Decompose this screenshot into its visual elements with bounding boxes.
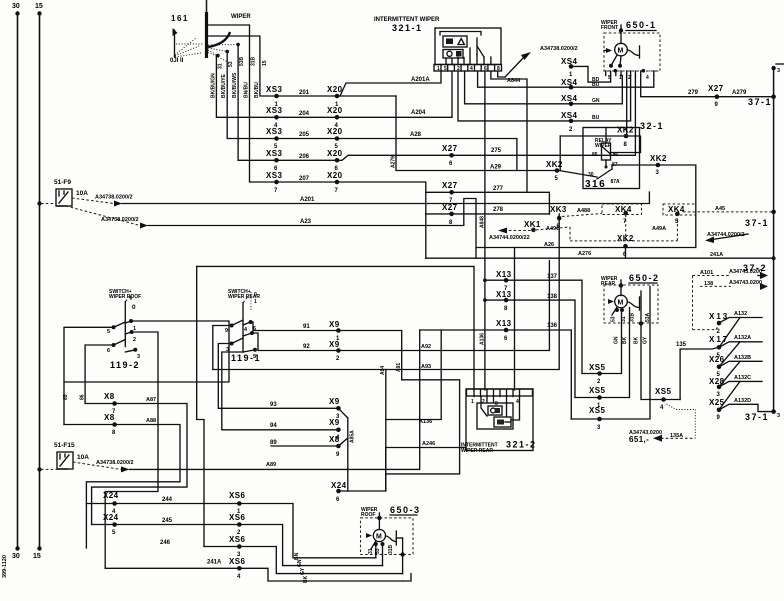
wire A34744 offpage arrow right: [705, 232, 748, 243]
svg-text:X25: X25: [709, 398, 725, 407]
connector XS5-4: [629, 387, 695, 444]
connector X26-5 zigzag: [709, 355, 762, 387]
svg-text:8: 8: [112, 430, 116, 436]
svg-text:A34744.0200/2: A34744.0200/2: [707, 232, 745, 238]
svg-text:0: 0: [254, 292, 257, 298]
svg-text:A34743.0200: A34743.0200: [729, 280, 762, 286]
svg-text:M: M: [618, 300, 624, 307]
svg-text:5: 5: [444, 66, 447, 72]
wire 93 119-1 to X9-3: [218, 344, 338, 409]
svg-text:X27: X27: [442, 144, 458, 153]
svg-text:6: 6: [336, 497, 340, 503]
svg-text:6: 6: [504, 336, 508, 342]
wire BN/BU 31B 161 to XS3-7: [207, 25, 277, 182]
svg-text:53B: 53B: [239, 56, 245, 66]
connector X17-5 zigzag: [709, 335, 762, 367]
svg-text:XS6: XS6: [229, 535, 245, 544]
svg-text:15: 15: [35, 3, 43, 10]
wire A844 321-1 to A34738.0200/2 offpage: [498, 46, 578, 84]
svg-text:A201: A201: [300, 197, 315, 203]
svg-text:10A: 10A: [77, 454, 89, 461]
svg-text:XK2: XK2: [617, 234, 634, 243]
svg-text:BK: BK: [634, 336, 640, 344]
wire A201A X20-1 to 321-1 pin: [337, 71, 441, 168]
svg-text:4: 4: [660, 405, 664, 411]
connector XK2-3: [612, 154, 696, 248]
svg-text:A488: A488: [577, 208, 590, 214]
wire 92 119-1 to X9-2 to A92: [252, 261, 549, 351]
wire 244 X24-4 to XS6-1: [86, 497, 375, 558]
svg-text:A94: A94: [380, 366, 386, 375]
wire 246 to XS6-3: [160, 540, 403, 574]
connector X9-4: [329, 418, 341, 441]
connector X8-8: [64, 413, 180, 548]
svg-text:241A: 241A: [710, 252, 723, 258]
svg-text:37-1: 37-1: [745, 412, 769, 422]
svg-text:8: 8: [504, 306, 508, 312]
connector XS4-4: [561, 76, 631, 134]
svg-text:X9: X9: [329, 418, 340, 427]
svg-text:A132C: A132C: [734, 375, 751, 381]
svg-text:A49A: A49A: [652, 226, 666, 232]
connector XS6-3: [229, 535, 245, 558]
svg-text:GN: GN: [297, 559, 303, 567]
connector X28-3 zigzag: [709, 375, 762, 410]
svg-text:53: 53: [228, 61, 234, 67]
wire color labels bottom: [294, 552, 309, 583]
svg-text:BK/BU/WS: BK/BU/WS: [232, 72, 238, 98]
svg-text:31B: 31B: [251, 56, 257, 66]
svg-text:WIPER: WIPER: [231, 14, 251, 20]
svg-text:BK: BK: [303, 575, 309, 583]
svg-text:245: 245: [162, 518, 173, 524]
sheet number 399-1120: [2, 555, 8, 578]
svg-text:37-1: 37-1: [745, 218, 769, 228]
wire 135 XS5-4 to X17: [676, 342, 719, 400]
svg-text:X27: X27: [708, 84, 724, 93]
svg-text:XK2: XK2: [546, 160, 563, 169]
svg-text:A34744.0200/22: A34744.0200/22: [489, 235, 530, 241]
svg-text:5: 5: [608, 75, 611, 81]
connector X13-7: [483, 270, 582, 374]
wire A89 fuse 51-F15 to X13-6 riser: [73, 330, 420, 472]
svg-text:A45: A45: [715, 206, 725, 212]
wire 321-1 pin to XS4-4 row: [458, 71, 571, 121]
svg-text:31B: 31B: [630, 312, 636, 322]
svg-text:A92: A92: [421, 344, 431, 350]
intermittent wiper unit 321-1: [374, 17, 502, 72]
svg-text:BK: BK: [622, 336, 628, 344]
svg-text:ROOF: ROOF: [361, 512, 375, 518]
svg-text:WIPER REAR: WIPER REAR: [461, 448, 493, 454]
svg-text:XS5: XS5: [589, 406, 605, 415]
connector XK4-5: [570, 204, 696, 241]
connector XS4-2: [561, 76, 654, 90]
svg-text:XK2: XK2: [617, 126, 634, 135]
svg-text:A132B: A132B: [734, 355, 751, 361]
wire A28 X20-5 to XK2-5: [337, 132, 517, 171]
wire A246 X24-6 to 321-2: [339, 441, 467, 491]
svg-text:6: 6: [449, 161, 453, 167]
wire A26 branch to 321-2 pin: [514, 248, 516, 391]
connector X13-8: [483, 290, 575, 398]
wire 241A to XS6-4: [105, 560, 411, 582]
svg-text:A87: A87: [146, 397, 156, 403]
wire A29 to XK2-5: [396, 96, 557, 171]
svg-text:GY: GY: [300, 567, 306, 575]
svg-text:A34738.0200/2: A34738.0200/2: [96, 460, 134, 466]
svg-text:4: 4: [244, 327, 248, 333]
svg-text:A201A: A201A: [411, 77, 430, 83]
connector XK2-5: [546, 160, 597, 182]
svg-text:1: 1: [437, 66, 440, 72]
svg-text:89: 89: [270, 440, 277, 446]
svg-text:2: 2: [336, 356, 340, 362]
svg-text:15: 15: [262, 60, 268, 66]
svg-text:31: 31: [218, 63, 224, 69]
connector XS5-2: [589, 363, 605, 385]
svg-text:51-F15: 51-F15: [54, 442, 75, 449]
svg-text:93: 93: [270, 402, 277, 408]
wire A93 119-1 to XK3: [213, 221, 559, 371]
connector XK3-5: [550, 205, 602, 230]
connector X24-4: [103, 491, 119, 515]
svg-text:XS3: XS3: [266, 106, 282, 115]
svg-text:321-1: 321-1: [392, 23, 423, 33]
svg-text:X24: X24: [103, 513, 119, 522]
relay assembly 32-1: [640, 121, 664, 131]
svg-text:XK1: XK1: [524, 220, 541, 229]
svg-text:A34738.0200/2: A34738.0200/2: [95, 195, 133, 201]
svg-text:BN/BU: BN/BU: [244, 82, 250, 98]
svg-text:87A: 87A: [611, 179, 621, 185]
svg-text:9: 9: [225, 328, 228, 334]
svg-text:5: 5: [112, 530, 116, 536]
wire 205: [277, 132, 338, 139]
svg-text:2: 2: [628, 75, 631, 81]
wire 206-275 X20-6 to X27-6 to 650-1: [337, 76, 635, 161]
svg-text:A91: A91: [396, 363, 402, 372]
wire A204 X20-4 to 321-1 pin: [337, 71, 452, 117]
wire 91 119-1 to X9-1 to A91: [251, 322, 403, 380]
svg-text:X26: X26: [709, 355, 725, 364]
svg-text:XK2: XK2: [650, 154, 667, 163]
svg-text:205: 205: [299, 132, 310, 138]
svg-text:A844: A844: [507, 78, 521, 84]
fuse 51-F15: [37, 442, 89, 472]
svg-text:A204: A204: [411, 110, 426, 116]
svg-text:X27: X27: [442, 181, 458, 190]
svg-text:GN: GN: [614, 336, 620, 344]
svg-text:119-2: 119-2: [110, 360, 140, 370]
svg-text:X13: X13: [496, 290, 512, 299]
svg-text:241A: 241A: [207, 560, 222, 566]
wire 119-2 box loop: [64, 321, 229, 382]
wire 204: [277, 111, 338, 117]
connector X20 column: [327, 85, 343, 194]
connector XK2-8: [560, 126, 640, 171]
connector X13-6: [420, 319, 572, 419]
svg-text:138: 138: [704, 281, 713, 287]
connector X27-6: [442, 144, 458, 167]
svg-text:XS6: XS6: [229, 491, 245, 500]
svg-text:REAR: REAR: [601, 281, 616, 287]
connector XS5-1: [589, 386, 605, 409]
svg-text:399-1120: 399-1120: [2, 555, 8, 578]
wiper rear motor 650-2: [601, 273, 660, 326]
wire A136 left jog: [386, 330, 441, 425]
connector XS4-1: [561, 57, 611, 88]
connector XS3 column: [266, 85, 282, 194]
svg-text:650-3: 650-3: [390, 505, 421, 515]
label 37-1 top: [748, 97, 772, 107]
wire 278 X27-8 to XK3-5: [426, 207, 550, 214]
wire 119-2 box to X8-8: [63, 382, 65, 425]
svg-text:135: 135: [676, 342, 687, 348]
svg-text:X9: X9: [329, 320, 340, 329]
svg-text:A85A: A85A: [350, 430, 356, 443]
fuse 51-F9: [37, 179, 88, 206]
svg-text:3: 3: [656, 170, 660, 176]
wire 279 650-1 to X27-9 to rail A279: [641, 76, 776, 99]
svg-text:X8: X8: [329, 435, 340, 444]
connector X9-3: [329, 397, 356, 491]
wire GY 650-2 to XS5-3: [571, 287, 650, 420]
svg-text:246: 246: [160, 540, 171, 546]
svg-text:X13: X13: [496, 270, 512, 279]
svg-text:1: 1: [471, 399, 474, 405]
wire A201 fuse 51-F9 output: [72, 192, 649, 207]
wire A94 riser: [380, 366, 386, 491]
svg-text:A34738.0200/2: A34738.0200/2: [540, 46, 578, 52]
connector XS6-4: [229, 557, 245, 580]
svg-text:5: 5: [107, 329, 110, 335]
wire 321-1 pin to XS4-3 row: [465, 71, 571, 104]
svg-text:A34738.0200/2: A34738.0200/2: [101, 217, 139, 223]
connector X13-2 zigzag: [709, 311, 762, 347]
svg-text:37-1: 37-1: [748, 97, 772, 107]
connector X25-9 zigzag: [709, 398, 780, 422]
svg-text:XS3: XS3: [266, 171, 282, 180]
svg-text:279: 279: [688, 90, 699, 96]
svg-text:32-1: 32-1: [640, 121, 664, 131]
svg-text:204: 204: [299, 111, 310, 117]
svg-text:A136: A136: [479, 333, 485, 345]
svg-text:207: 207: [299, 176, 310, 182]
power rail 30: [12, 3, 20, 560]
wire 650-1 pin to XK2-8: [626, 76, 628, 137]
wire GN 650-2 to XS5-2: [582, 310, 622, 374]
svg-text:86: 86: [80, 394, 86, 400]
svg-text:BK/BU/YE: BK/BU/YE: [221, 73, 227, 98]
svg-text:XK3: XK3: [550, 205, 567, 214]
svg-text:31B: 31B: [388, 544, 394, 554]
svg-text:FRONT: FRONT: [601, 25, 618, 31]
svg-text:92: 92: [303, 344, 310, 350]
svg-text:A88: A88: [146, 418, 156, 424]
wire A276 / 241A to rail: [426, 251, 776, 273]
svg-text:206: 206: [299, 154, 310, 160]
svg-text:4: 4: [516, 399, 519, 405]
svg-text:A848: A848: [479, 216, 485, 228]
svg-text:BN: BN: [294, 552, 300, 560]
svg-text:2: 2: [482, 399, 485, 405]
right rail 37: [771, 64, 784, 412]
svg-text:30: 30: [12, 553, 20, 560]
svg-text:M: M: [376, 534, 382, 541]
svg-text:4: 4: [470, 66, 473, 72]
svg-text:244: 244: [162, 497, 173, 503]
svg-text:15: 15: [33, 553, 41, 560]
svg-text:53: 53: [375, 548, 381, 554]
svg-text:X20: X20: [327, 149, 343, 158]
svg-text:XS6: XS6: [229, 513, 245, 522]
svg-text:137: 137: [547, 274, 558, 280]
svg-text:3: 3: [777, 413, 780, 419]
relay wiper 316: [583, 128, 640, 191]
svg-text:XS3: XS3: [266, 149, 282, 158]
svg-text:XS4: XS4: [561, 57, 577, 66]
wire 321-1 pin to XS4-2 row: [478, 71, 571, 87]
wire A101 offpage dashed: [693, 269, 769, 279]
connector X27-8: [442, 203, 458, 226]
svg-text:1: 1: [254, 299, 257, 305]
wiper roof motor 650-3: [361, 505, 421, 566]
connector X24-6: [331, 481, 347, 503]
switch wiper rear 119-1: [225, 289, 261, 363]
svg-text:XS5: XS5: [655, 387, 671, 396]
svg-text:9: 9: [717, 415, 721, 421]
svg-text:4: 4: [646, 75, 649, 81]
connector X24-5: [103, 513, 119, 536]
svg-text:X20: X20: [327, 106, 343, 115]
svg-text:X8: X8: [104, 413, 115, 422]
wire 119-2 pin2 to XS6-4: [105, 332, 158, 568]
svg-text:2: 2: [133, 337, 136, 343]
svg-text:135A: 135A: [670, 433, 683, 439]
svg-text:XS4: XS4: [561, 111, 577, 120]
svg-text:BK/BU/GN: BK/BU/GN: [211, 73, 217, 98]
svg-text:53: 53: [611, 316, 617, 322]
svg-text:94: 94: [270, 423, 277, 429]
svg-text:277: 277: [493, 186, 504, 192]
svg-text:651,-: 651,-: [629, 435, 649, 444]
svg-text:136: 136: [547, 323, 558, 329]
svg-text:7: 7: [274, 188, 278, 194]
svg-text:A132A: A132A: [734, 335, 751, 341]
svg-text:A132: A132: [734, 311, 747, 317]
power rail 15: [33, 3, 43, 560]
svg-text:X24: X24: [103, 491, 119, 500]
svg-text:119-1: 119-1: [231, 353, 261, 363]
svg-text:A34743.0200: A34743.0200: [729, 269, 762, 275]
svg-text:M: M: [618, 48, 624, 55]
wire A848 321-1 pin to X13-7 and 321-2: [479, 71, 485, 390]
svg-text:51-F9: 51-F9: [54, 179, 71, 186]
svg-text:XS3: XS3: [266, 127, 282, 136]
switch wiper roof 119-2: [107, 289, 141, 370]
svg-text:650-1: 650-1: [626, 20, 657, 30]
svg-text:GN: GN: [592, 98, 600, 104]
wire BK 650-2 to XS5-1: [575, 308, 630, 398]
svg-text:8: 8: [624, 142, 628, 148]
wire BK/BU/GN 161 to XS3-4: [211, 56, 277, 118]
connector X8-7: [85, 392, 187, 525]
svg-text:0: 0: [132, 304, 136, 311]
svg-text:XS6: XS6: [229, 557, 245, 566]
svg-text:9: 9: [715, 102, 719, 108]
svg-text:201: 201: [299, 90, 310, 96]
svg-text:XS3: XS3: [266, 85, 282, 94]
svg-text:85: 85: [592, 152, 598, 158]
svg-text:3: 3: [777, 68, 780, 74]
svg-text:650-2: 650-2: [629, 273, 660, 283]
svg-text:XS5: XS5: [589, 386, 605, 395]
wiper switch 161: [170, 0, 251, 64]
svg-text:91: 91: [303, 324, 310, 330]
wire BK/BU/YE 53 161 to XS3-5: [221, 52, 276, 139]
svg-text:X9: X9: [329, 340, 340, 349]
svg-text:A49C: A49C: [546, 226, 560, 232]
svg-text:A89: A89: [266, 462, 276, 468]
svg-text:A26: A26: [544, 242, 554, 248]
svg-text:7: 7: [335, 188, 339, 194]
connector XS5-3: [589, 406, 605, 431]
svg-text:2: 2: [569, 127, 573, 133]
wire BK/BU 15 161 to XS3-1: [207, 36, 277, 98]
svg-text:A276: A276: [578, 251, 591, 257]
wiper front motor 650-1: [601, 20, 660, 81]
connector X9-2: [329, 340, 341, 362]
svg-text:X8: X8: [104, 392, 115, 401]
svg-text:2: 2: [597, 379, 601, 385]
svg-text:275: 275: [491, 148, 502, 154]
svg-text:X20: X20: [327, 85, 343, 94]
connector X27-9: [708, 84, 724, 108]
intermittent wiper rear 321-2: [461, 389, 537, 454]
svg-text:A136: A136: [419, 419, 432, 425]
svg-text:X20: X20: [327, 171, 343, 180]
connector X8-9: [270, 435, 348, 458]
wire 245 X24-5 to XS6-2: [92, 518, 383, 566]
svg-text:9: 9: [336, 452, 340, 458]
connector XS4-3: [561, 76, 622, 107]
svg-text:X24: X24: [331, 481, 347, 490]
svg-text:30: 30: [12, 3, 20, 10]
wire 138 offpage dashed: [693, 276, 769, 330]
svg-text:XS4: XS4: [561, 94, 577, 103]
svg-text:XS4: XS4: [561, 78, 577, 87]
svg-text:X13: X13: [496, 319, 512, 328]
svg-text:X20: X20: [327, 127, 343, 136]
svg-text:WIPER ROOF: WIPER ROOF: [109, 294, 141, 300]
wire A45 XK4-5 to rail: [683, 206, 776, 228]
connector XK1: [489, 220, 570, 241]
svg-text:A279: A279: [732, 90, 747, 96]
wire BK 650-2 to XS5-4: [634, 291, 681, 400]
svg-text:6: 6: [107, 348, 110, 354]
svg-text:A246: A246: [422, 441, 435, 447]
connector XS6-1: [229, 491, 245, 515]
wire A23 fuse 51-F9 second output: [66, 199, 476, 259]
wire A91 jog to 321-2 area: [386, 380, 460, 474]
svg-text:278: 278: [493, 207, 504, 213]
svg-text:X9: X9: [329, 397, 340, 406]
svg-text:A132D: A132D: [734, 398, 751, 404]
svg-text:X27: X27: [442, 203, 458, 212]
svg-text:10A: 10A: [76, 190, 88, 197]
wire 207-277 X20-7 to X27-7 to 321-1: [337, 71, 549, 258]
